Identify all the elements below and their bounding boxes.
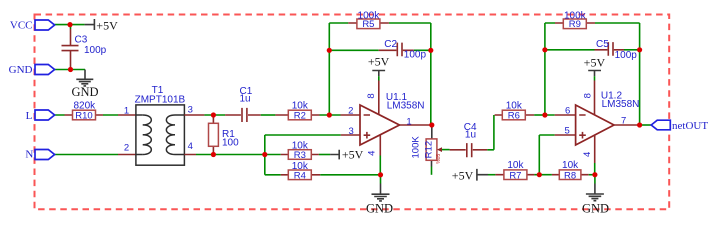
svg-text:100: 100: [222, 137, 239, 148]
svg-text:2: 2: [348, 105, 353, 116]
svg-text:R12: R12: [424, 141, 435, 158]
svg-text:R10: R10: [75, 111, 92, 122]
svg-text:LM358N: LM358N: [602, 99, 640, 110]
svg-text:R7: R7: [509, 170, 521, 181]
svg-text:3: 3: [188, 104, 193, 115]
svg-text:GND: GND: [9, 64, 33, 76]
svg-text:4: 4: [188, 141, 193, 152]
svg-text:100p: 100p: [615, 50, 638, 61]
svg-text:R2: R2: [294, 111, 306, 122]
svg-text:100p: 100p: [84, 45, 107, 56]
svg-text:N: N: [25, 149, 33, 161]
svg-text:VCC: VCC: [10, 19, 33, 31]
svg-text:L: L: [26, 110, 33, 122]
svg-text:3: 3: [349, 126, 354, 137]
svg-text:1u: 1u: [240, 94, 251, 105]
svg-text:1: 1: [406, 116, 411, 127]
svg-text:+5V: +5V: [96, 18, 118, 32]
svg-text:netOUT: netOUT: [672, 120, 708, 132]
svg-text:6: 6: [565, 105, 570, 116]
svg-text:+5V: +5V: [584, 56, 606, 70]
svg-text:1: 1: [124, 105, 129, 116]
svg-text:%05: %05: [436, 154, 442, 164]
svg-text:R3: R3: [294, 150, 306, 161]
svg-text:100p: 100p: [404, 50, 427, 61]
svg-text:LM358N: LM358N: [387, 101, 425, 112]
svg-text:GND: GND: [71, 85, 98, 99]
svg-text:C2: C2: [384, 39, 397, 50]
svg-text:8: 8: [366, 93, 377, 98]
svg-text:R8: R8: [564, 170, 576, 181]
svg-text:5: 5: [565, 125, 570, 136]
svg-text:GND: GND: [366, 202, 393, 216]
svg-text:C5: C5: [596, 39, 609, 50]
svg-text:+5V: +5V: [368, 54, 390, 68]
svg-text:+5V: +5V: [342, 148, 364, 162]
svg-text:100K: 100K: [411, 136, 422, 159]
svg-text:R4: R4: [294, 170, 306, 181]
svg-text:R6: R6: [508, 111, 520, 122]
svg-text:2: 2: [124, 142, 129, 153]
svg-text:8: 8: [582, 93, 593, 98]
svg-text:GND: GND: [582, 202, 609, 216]
svg-text:1u: 1u: [465, 130, 476, 141]
svg-text:C3: C3: [75, 35, 88, 46]
svg-text:R5: R5: [362, 19, 374, 30]
svg-text:ZMPT101B: ZMPT101B: [135, 95, 186, 106]
svg-text:R9: R9: [569, 19, 581, 30]
svg-text:4: 4: [582, 152, 593, 157]
svg-text:+5V: +5V: [452, 168, 474, 182]
svg-text:4: 4: [367, 151, 378, 156]
svg-text:7: 7: [621, 115, 626, 126]
